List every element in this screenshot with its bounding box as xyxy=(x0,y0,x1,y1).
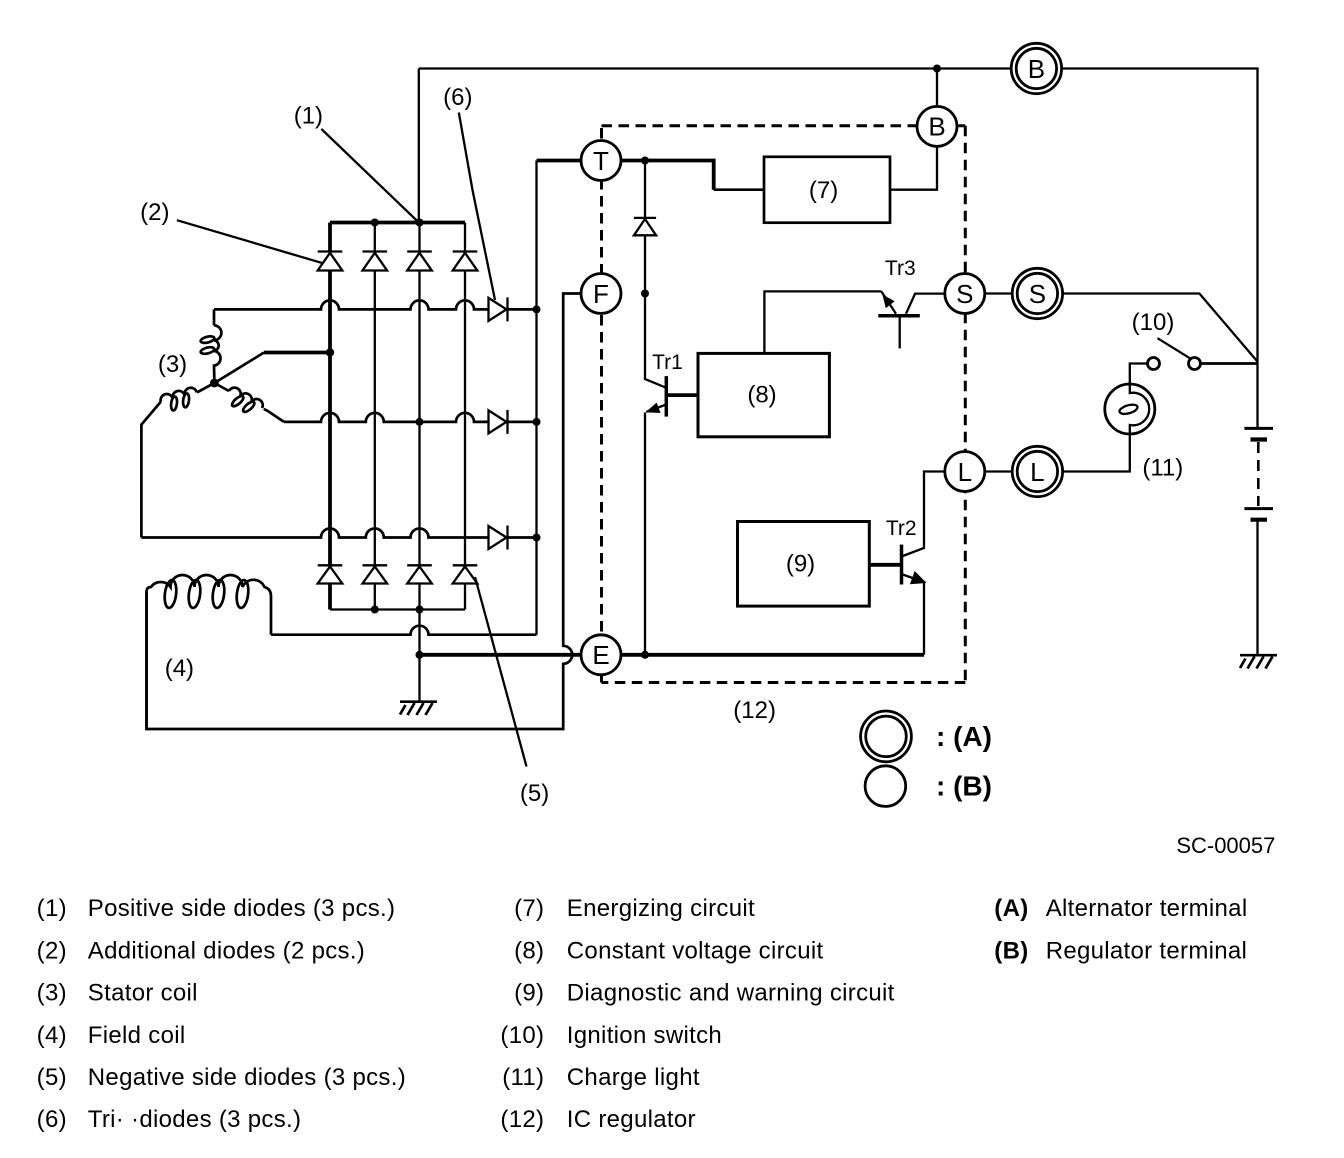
diode internal regulator xyxy=(634,218,656,235)
svg-text:Field coil: Field coil xyxy=(88,1022,186,1049)
wire trio output bus xyxy=(535,161,537,635)
wire F loop (F terminal to field coil left end) xyxy=(147,294,583,730)
wire rectifier leg 1 xyxy=(328,223,332,610)
wire top rail B+ xyxy=(419,69,1258,362)
svg-text:Diagnostic and warning circuit: Diagnostic and warning circuit xyxy=(567,980,895,1007)
svg-text:(2): (2) xyxy=(37,937,67,964)
diode trio DT3 xyxy=(489,526,508,550)
wire stator node diagonal xyxy=(214,353,264,384)
legend row 5 mid xyxy=(502,1064,700,1091)
leader line (2) xyxy=(177,220,323,263)
svg-text:(A): (A) xyxy=(994,895,1028,922)
transistor Q Tr3 xyxy=(878,291,920,348)
coil stator top winding xyxy=(200,325,221,383)
svg-text:S: S xyxy=(1029,279,1046,309)
wire Tr1 emitter drop xyxy=(644,413,646,655)
diode positive side D1 top xyxy=(318,252,343,271)
svg-text:(3): (3) xyxy=(37,980,67,1007)
legend row 2 mid xyxy=(514,937,823,964)
svg-text:: (A): : (A) xyxy=(936,721,992,752)
node dot stator link xyxy=(326,348,334,356)
diode negative side D5 bottom xyxy=(318,565,343,583)
svg-text:Charge light: Charge light xyxy=(567,1064,700,1091)
terminal circle F xyxy=(581,274,621,314)
wire battery stem xyxy=(1256,362,1258,656)
terminal circle E xyxy=(581,635,621,675)
terminal double circle B alternator xyxy=(1011,43,1061,93)
svg-text:B: B xyxy=(1028,54,1045,84)
svg-text:Regulator terminal: Regulator terminal xyxy=(1046,937,1248,964)
svg-text:(9): (9) xyxy=(786,550,815,577)
leader line (1) xyxy=(321,129,418,223)
svg-text:(B): (B) xyxy=(994,937,1028,964)
node dot E Tr1 junction xyxy=(641,651,649,659)
ground at rectifier xyxy=(400,702,437,715)
legend row 3 left xyxy=(37,980,198,1007)
svg-text:(2): (2) xyxy=(140,199,169,226)
node dot E ground junction xyxy=(416,651,424,659)
svg-text:Alternator terminal: Alternator terminal xyxy=(1046,895,1248,922)
node dot bus leg2 xyxy=(371,219,379,227)
svg-text:(7): (7) xyxy=(809,177,838,204)
svg-text:(12): (12) xyxy=(500,1106,544,1133)
svg-text:: (B): : (B) xyxy=(936,771,992,802)
svg-text:L: L xyxy=(958,457,972,487)
wire T line thick xyxy=(537,161,714,190)
svg-text:(6): (6) xyxy=(443,84,472,111)
wire field coil link to trio bus xyxy=(271,626,537,635)
diode trio DT1 xyxy=(489,297,508,321)
svg-text:SC-00057: SC-00057 xyxy=(1176,833,1275,858)
legend row 2 left xyxy=(37,937,365,964)
box diagnostic and warning circuit (9) xyxy=(738,522,870,607)
wire E line xyxy=(420,653,925,657)
node dot T junction xyxy=(641,157,649,165)
box energizing circuit (7) xyxy=(764,157,890,223)
svg-text:T: T xyxy=(593,146,609,176)
node dot phase2 leg3 xyxy=(416,418,424,426)
svg-text:(3): (3) xyxy=(158,351,187,378)
legend row 1 right xyxy=(994,895,1247,922)
legend row 1 left xyxy=(37,895,396,922)
wire Tr1 collector drop xyxy=(645,294,666,388)
diode positive side D2 top xyxy=(363,252,388,271)
coil stator left winding xyxy=(141,383,214,538)
svg-text:S: S xyxy=(956,279,973,309)
svg-text:(10): (10) xyxy=(1132,309,1175,336)
wire box 8 top feed xyxy=(764,291,881,353)
ground at battery xyxy=(1240,655,1277,668)
wire phase 2 xyxy=(284,413,537,422)
legend symbol circle (B) xyxy=(865,766,906,807)
svg-text:(12): (12) xyxy=(733,697,776,724)
transistor Q Tr1 xyxy=(646,376,699,417)
svg-text:(6): (6) xyxy=(37,1106,67,1133)
diode additional D4 top xyxy=(453,252,478,271)
svg-text:(5): (5) xyxy=(520,780,549,807)
coil field winding (4) xyxy=(147,575,272,729)
svg-text:(9): (9) xyxy=(514,980,544,1007)
wire Tr2 emitter drop xyxy=(923,583,925,655)
wire internal diode branch xyxy=(644,161,646,294)
wire S terminal links xyxy=(985,294,1258,362)
wire T to box 7 xyxy=(714,188,764,191)
svg-text:Constant voltage circuit: Constant voltage circuit xyxy=(567,937,824,964)
node dot trio out 1 xyxy=(533,305,541,313)
diode negative side D7 bottom xyxy=(407,565,432,583)
svg-text:L: L xyxy=(1030,457,1044,487)
wire rectifier top bus xyxy=(330,221,465,225)
wire stator link to leg 1 xyxy=(264,351,330,355)
svg-text:Tr3: Tr3 xyxy=(885,257,916,280)
wire stator top branch xyxy=(213,309,216,325)
legend row 5 left xyxy=(37,1064,406,1091)
diode additional D3 top xyxy=(407,252,432,271)
wire phase 3 xyxy=(141,529,536,538)
battery cell plates xyxy=(1244,428,1273,519)
wire rectifier leg 4 xyxy=(464,223,466,610)
svg-text:(7): (7) xyxy=(514,895,544,922)
svg-text:(1): (1) xyxy=(294,102,323,129)
svg-text:(11): (11) xyxy=(502,1064,544,1091)
svg-text:(4): (4) xyxy=(37,1022,67,1049)
node dot bottom bus leg3 xyxy=(416,606,424,614)
node dot trio out 3 xyxy=(533,534,541,542)
legend row 1 mid xyxy=(514,895,755,922)
svg-text:Positive side diodes (3 pcs.): Positive side diodes (3 pcs.) xyxy=(88,895,396,922)
legend row 6 left xyxy=(37,1106,302,1133)
svg-text:(11): (11) xyxy=(1142,454,1183,481)
diode trio DT2 xyxy=(489,410,508,434)
IC regulator dashed boundary (12) xyxy=(602,124,966,127)
diode negative side D6 bottom xyxy=(363,565,388,583)
svg-text:(1): (1) xyxy=(37,895,67,922)
node dot top rail B xyxy=(933,65,941,73)
terminal double circle L alternator xyxy=(1012,446,1062,496)
wire Tr2 collector to L xyxy=(903,472,945,557)
node dot bus leg3 xyxy=(416,219,424,227)
diode negative side D8 bottom xyxy=(453,565,478,583)
wire box 7 to B terminal xyxy=(890,69,937,190)
leader line (5) xyxy=(475,577,527,767)
legend row 2 right xyxy=(994,937,1247,964)
svg-text:F: F xyxy=(593,279,609,309)
svg-text:Tr2: Tr2 xyxy=(886,517,917,540)
wire L terminal links xyxy=(985,434,1130,472)
wire rectifier leg 3 xyxy=(418,223,420,702)
svg-text:(10): (10) xyxy=(500,1022,544,1049)
svg-text:(8): (8) xyxy=(747,381,776,408)
legend row 6 mid xyxy=(500,1106,695,1133)
leader line (6) xyxy=(459,113,495,301)
svg-text:E: E xyxy=(592,640,609,670)
coil stator right winding xyxy=(214,383,284,422)
svg-text:B: B xyxy=(928,112,945,142)
svg-text:Tri· ·diodes (3 pcs.): Tri· ·diodes (3 pcs.) xyxy=(88,1106,301,1133)
node dot bottom bus leg2 xyxy=(371,606,379,614)
svg-text:Tr1: Tr1 xyxy=(652,351,683,374)
terminal circle S regulator xyxy=(945,274,985,314)
terminal circle T xyxy=(581,141,621,181)
svg-text:Ignition switch: Ignition switch xyxy=(567,1022,722,1049)
wire rectifier bottom bus xyxy=(330,608,465,610)
node dot F junction xyxy=(641,290,649,298)
terminal circle L regulator xyxy=(945,452,985,492)
wire switch to battery rail xyxy=(1201,362,1258,365)
wire drop from top rail to rectifier bus xyxy=(418,69,420,223)
terminal circle B regulator xyxy=(917,106,957,146)
svg-text:Energizing circuit: Energizing circuit xyxy=(567,895,755,922)
ignition switch (10) xyxy=(1148,338,1201,369)
wire lamp to switch contact xyxy=(1130,364,1148,385)
wire rectifier leg 2 xyxy=(374,223,376,610)
svg-text:(8): (8) xyxy=(514,937,544,964)
box constant voltage circuit (8) xyxy=(698,353,829,436)
terminal double circle S alternator xyxy=(1012,268,1062,318)
svg-text:Stator coil: Stator coil xyxy=(88,980,198,1007)
node dot trio out 2 xyxy=(533,418,541,426)
legend symbol circle (A) xyxy=(861,711,912,762)
legend row 4 mid xyxy=(500,1022,722,1049)
svg-text:IC regulator: IC regulator xyxy=(567,1106,696,1133)
svg-text:Negative side diodes (3 pcs.): Negative side diodes (3 pcs.) xyxy=(88,1064,406,1091)
svg-text:(5): (5) xyxy=(37,1064,67,1091)
charge light lamp (11) xyxy=(1105,384,1155,434)
wire phase 1 xyxy=(214,300,537,309)
legend row 4 left xyxy=(37,1022,186,1049)
transistor Q Tr2 xyxy=(869,545,926,585)
svg-text:Additional diodes (2 pcs.): Additional diodes (2 pcs.) xyxy=(88,937,365,964)
legend row 3 mid xyxy=(514,980,895,1007)
svg-text:(4): (4) xyxy=(165,655,194,682)
wire Tr3 collector to S xyxy=(906,294,945,314)
node dot stator neutral xyxy=(210,379,219,388)
